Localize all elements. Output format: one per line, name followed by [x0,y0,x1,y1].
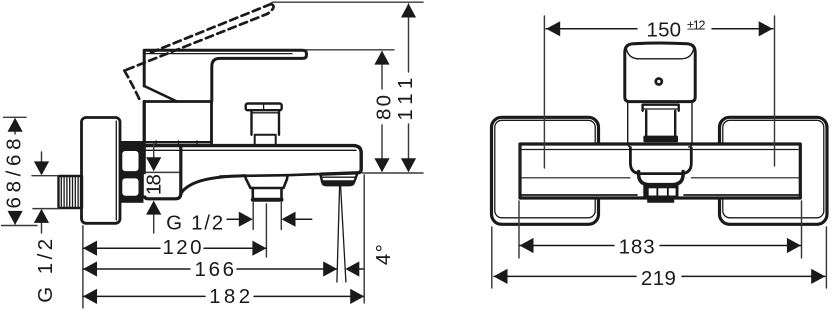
arrow 80 down [374,158,389,172]
arrow 4deg left [345,261,359,276]
dim line 111 [408,4,410,171]
arrow 120 right [252,241,266,256]
G12 dim line pieces [227,218,312,220]
spout mouth [320,174,357,185]
outlet ext lines [253,203,281,230]
halo behind 18 label [144,174,163,195]
183 ext right [801,201,803,258]
arrow 182 right [350,289,364,304]
bar mid line [521,177,799,179]
dashed raised lever [124,4,273,100]
front view group [492,43,828,224]
cartridge foot band [644,137,677,142]
cartridge collar [643,105,679,111]
dimension graphics front view [492,16,827,288]
svg-text:68/68: 68/68 [3,139,26,209]
182 dim line [83,295,363,297]
svg-text:18: 18 [143,174,166,195]
arrow 219 left [494,269,508,284]
150 ext left [543,16,545,168]
bottom outlet flange [220,175,288,188]
dim line 80 [381,52,383,171]
diverter knob body [252,110,280,135]
arrow G12 left [282,212,296,227]
right escutcheon inner line [723,120,824,218]
arrow 18 up [146,201,161,215]
cartridge shoulder box [628,103,692,147]
spout underside right of outlet [288,174,319,175]
spout top inner line [146,149,356,151]
bottom outlet bottom cap [253,198,282,202]
68/68 ext top [4,116,27,118]
right escutcheon [720,117,828,224]
svg-text:219: 219 [641,267,676,290]
diverter knob flange [246,104,282,111]
left escutcheon inner line [495,120,595,218]
bar bottom inner line [521,194,799,196]
arrow 6868 down [8,211,23,225]
lever top thin inner line [146,53,293,55]
water stream line left [337,186,340,282]
arrow 80 up [374,51,389,65]
spout plate front [630,148,691,174]
dimension graphics side view [2,2,423,308]
cartridge neck [646,111,675,137]
svg-text:183: 183 [619,235,655,258]
outlet bottom cap front [648,198,674,202]
main spout body top edge [144,146,361,175]
svg-text:80: 80 [373,95,396,120]
arrow 111 down [401,158,416,172]
svg-text:120: 120 [163,236,202,259]
escutcheon wall plate side [82,118,121,224]
outlet castellated nut front [643,185,678,198]
svg-text:G 1/2: G 1/2 [166,211,223,234]
ext line top 111 [272,1,423,3]
120 dim line [83,247,266,249]
68/68 ext bottom [2,225,37,227]
arrow 166 right [323,261,337,276]
body left column [144,102,181,199]
outlet center ext [265,204,267,257]
arrow 150 left [546,21,560,36]
arrowheads side view [8,4,417,305]
arrow G12 right [239,212,253,227]
svg-text:166: 166 [195,258,235,281]
arrow G12pipe up [34,209,49,223]
bottom outlet threaded part [253,188,282,200]
arrow 219 right [811,269,825,284]
ext line top 80 [306,49,394,51]
arrow 182 left [83,289,97,304]
diverter knob shoulder line [253,112,279,114]
183 ext left [518,201,520,258]
166 dim line [83,268,337,270]
diverter knob tick [263,104,265,111]
housing ticks [156,141,197,147]
arrowheads front view [494,21,826,284]
side view group [59,4,362,282]
cartridge housing [144,102,211,145]
182 right ext line [363,175,365,303]
svg-text:4°: 4° [372,244,395,265]
G12 pipe dim tails [41,152,43,233]
166 right second tail [357,268,364,270]
hex nut [121,141,144,203]
svg-text:111: 111 [394,78,417,121]
bar top inner line [522,149,798,151]
svg-text:±12: ±12 [687,18,706,32]
housing bottom line [144,141,211,143]
arrow 183 right [787,238,801,253]
handle knob front [625,43,695,102]
reference line bottom right [363,172,424,174]
spout underside left of outlet [245,174,288,177]
diverter knob stem [255,135,276,144]
lever handle solid [144,50,306,101]
arrow 120 left [83,241,97,256]
handle base diagonal [144,86,177,102]
collar inner line [643,108,678,110]
219 dim line [494,275,825,277]
spout underside curve [181,176,245,195]
150 ext right [774,16,776,166]
body bar front [520,144,800,198]
spout mouth flange front [639,172,684,185]
arrow 183 left [520,238,534,253]
water stream line right [341,186,346,282]
G12 pipe ext bottom [33,208,59,210]
arrow 6868 up [8,118,23,132]
arrow 150 right [759,21,773,36]
arrow G12pipe down [34,161,49,175]
escutcheon inner edge line [115,121,117,220]
wall ext line left [82,226,84,308]
threaded inlet pipe [59,176,83,208]
knob inner top arc [626,49,693,59]
219 ext right [825,227,827,288]
spout mouth dark bottom band [323,180,355,186]
svg-text:G 1/2: G 1/2 [34,239,57,303]
arrow 111 up [401,4,416,18]
knob center dot [656,79,662,85]
spout mouth inner line [321,176,356,178]
left escutcheon [492,117,599,224]
18 top short line [146,171,179,173]
svg-text:182: 182 [209,285,250,308]
arrow 166 left [83,261,97,276]
68/68 dim line [14,120,16,224]
219 ext left [491,227,493,288]
svg-text:150: 150 [647,19,682,42]
dim 18 tails [153,143,155,233]
arrow 18 down [146,157,161,171]
150 dim line [546,28,773,30]
183 dim line [519,245,801,247]
G12 pipe ext top [32,175,59,177]
